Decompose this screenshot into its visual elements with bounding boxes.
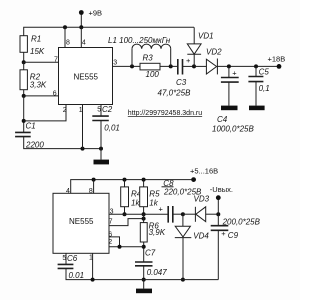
svg-text:200,0*25В: 200,0*25В [222, 217, 261, 226]
svg-text:15K: 15K [30, 47, 45, 56]
svg-text:1000,0*25В: 1000,0*25В [212, 125, 254, 134]
svg-text:L1 100...250мкГн: L1 100...250мкГн [108, 36, 171, 45]
svg-text:http://299792458.3dn.ru: http://299792458.3dn.ru [128, 110, 202, 117]
svg-text:+: + [232, 69, 237, 78]
svg-text:C7: C7 [145, 249, 156, 258]
svg-text:+5...16В: +5...16В [190, 166, 218, 175]
svg-text:5: 5 [62, 255, 66, 262]
svg-text:C5: C5 [259, 67, 270, 76]
svg-text:8: 8 [66, 40, 70, 47]
svg-text:3: 3 [110, 208, 114, 215]
svg-text:+: + [159, 204, 164, 213]
svg-text:VD4: VD4 [193, 232, 209, 241]
svg-text:4: 4 [82, 40, 86, 47]
svg-text:R5: R5 [149, 189, 160, 198]
svg-text:C3: C3 [176, 78, 187, 87]
svg-text:5: 5 [97, 106, 101, 113]
svg-text:0.047: 0.047 [147, 268, 168, 277]
svg-text:1k: 1k [131, 198, 140, 207]
svg-text:NE555: NE555 [69, 217, 94, 226]
svg-text:3,9K: 3,9K [149, 228, 166, 237]
svg-text:2: 2 [108, 239, 112, 246]
svg-text:-Uвых.: -Uвых. [210, 185, 233, 194]
svg-text:2: 2 [63, 107, 67, 114]
svg-text:+: + [221, 229, 226, 238]
svg-text:1: 1 [89, 255, 93, 262]
svg-text:3,3K: 3,3K [30, 81, 47, 90]
svg-text:C9: C9 [228, 231, 239, 240]
svg-text:2200: 2200 [25, 140, 44, 149]
svg-text:NE555: NE555 [74, 73, 99, 82]
svg-text:6: 6 [53, 90, 57, 97]
svg-text:0.01: 0.01 [69, 271, 85, 280]
svg-text:3: 3 [113, 60, 117, 67]
svg-text:C4: C4 [217, 115, 228, 124]
svg-text:100: 100 [146, 70, 160, 79]
svg-text:R3: R3 [143, 54, 154, 63]
svg-text:VD1: VD1 [198, 32, 214, 41]
svg-text:0,1: 0,1 [259, 84, 270, 93]
svg-text:C6: C6 [67, 254, 78, 263]
svg-text:+9В: +9В [89, 8, 103, 17]
svg-text:R1: R1 [31, 34, 41, 43]
svg-text:+18В: +18В [268, 55, 286, 64]
svg-text:7: 7 [109, 219, 113, 226]
svg-text:0,01: 0,01 [104, 123, 120, 132]
svg-text:C2: C2 [102, 105, 113, 114]
svg-text:VD2: VD2 [206, 48, 222, 57]
svg-text:+: + [186, 56, 191, 65]
svg-text:VD3: VD3 [194, 195, 210, 204]
svg-text:6: 6 [108, 231, 112, 238]
svg-text:1: 1 [79, 107, 83, 114]
svg-text:C1: C1 [26, 122, 36, 131]
svg-text:1k: 1k [149, 198, 158, 207]
svg-text:47,0*25В: 47,0*25В [158, 89, 192, 98]
svg-text:7: 7 [54, 57, 58, 64]
